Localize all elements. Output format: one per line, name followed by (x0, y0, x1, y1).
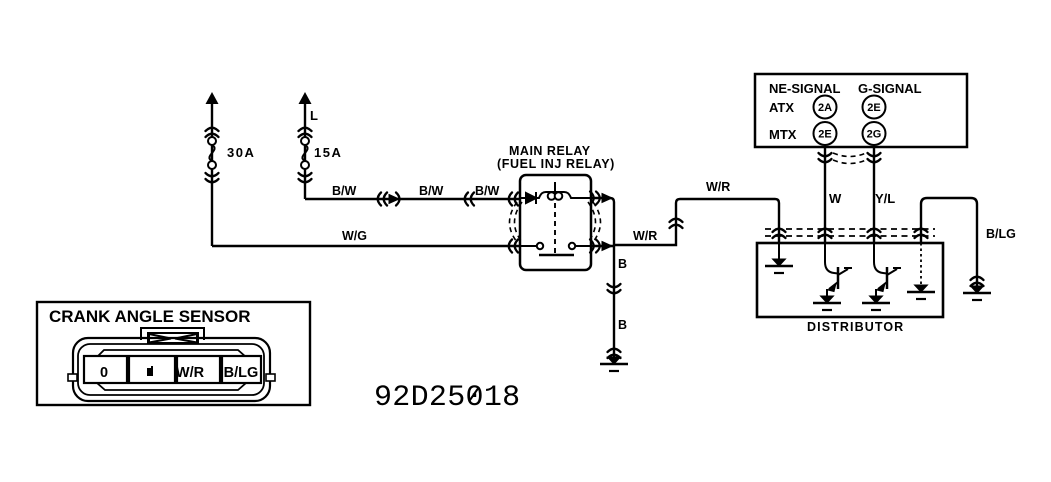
svg-text:Y/L: Y/L (875, 191, 895, 206)
svg-text:DISTRIBUTOR: DISTRIBUTOR (807, 320, 904, 334)
svg-text:B: B (618, 257, 627, 271)
svg-text:(FUEL INJ RELAY): (FUEL INJ RELAY) (497, 157, 615, 171)
svg-text:2E: 2E (867, 102, 880, 114)
svg-text:92D25018: 92D25018 (374, 381, 520, 415)
svg-text:CRANK ANGLE SENSOR: CRANK ANGLE SENSOR (49, 307, 251, 326)
svg-text:ATX: ATX (769, 100, 794, 115)
svg-text:W: W (829, 191, 842, 206)
svg-text:B/W: B/W (475, 184, 500, 198)
svg-text:L: L (310, 108, 318, 123)
svg-text:2E: 2E (818, 129, 831, 141)
svg-text:15A: 15A (314, 145, 342, 160)
svg-text:0: 0 (100, 365, 108, 381)
svg-text:MAIN RELAY: MAIN RELAY (509, 144, 591, 158)
svg-text:W/R: W/R (706, 180, 730, 194)
svg-text:G-SIGNAL: G-SIGNAL (858, 81, 922, 96)
svg-text:B/W: B/W (332, 184, 357, 198)
svg-text:NE-SIGNAL: NE-SIGNAL (769, 81, 841, 96)
svg-text:MTX: MTX (769, 127, 797, 142)
svg-text:30A: 30A (227, 145, 255, 160)
svg-text:2G: 2G (867, 129, 882, 141)
svg-text:B: B (618, 318, 627, 332)
svg-text:W/R: W/R (176, 365, 205, 381)
svg-text:W/R: W/R (633, 229, 657, 243)
svg-text:B/W: B/W (419, 184, 444, 198)
svg-text:B/LG: B/LG (224, 365, 259, 381)
svg-text:B/LG: B/LG (986, 227, 1016, 241)
svg-text:2A: 2A (818, 102, 832, 114)
svg-text:W/G: W/G (342, 229, 367, 243)
